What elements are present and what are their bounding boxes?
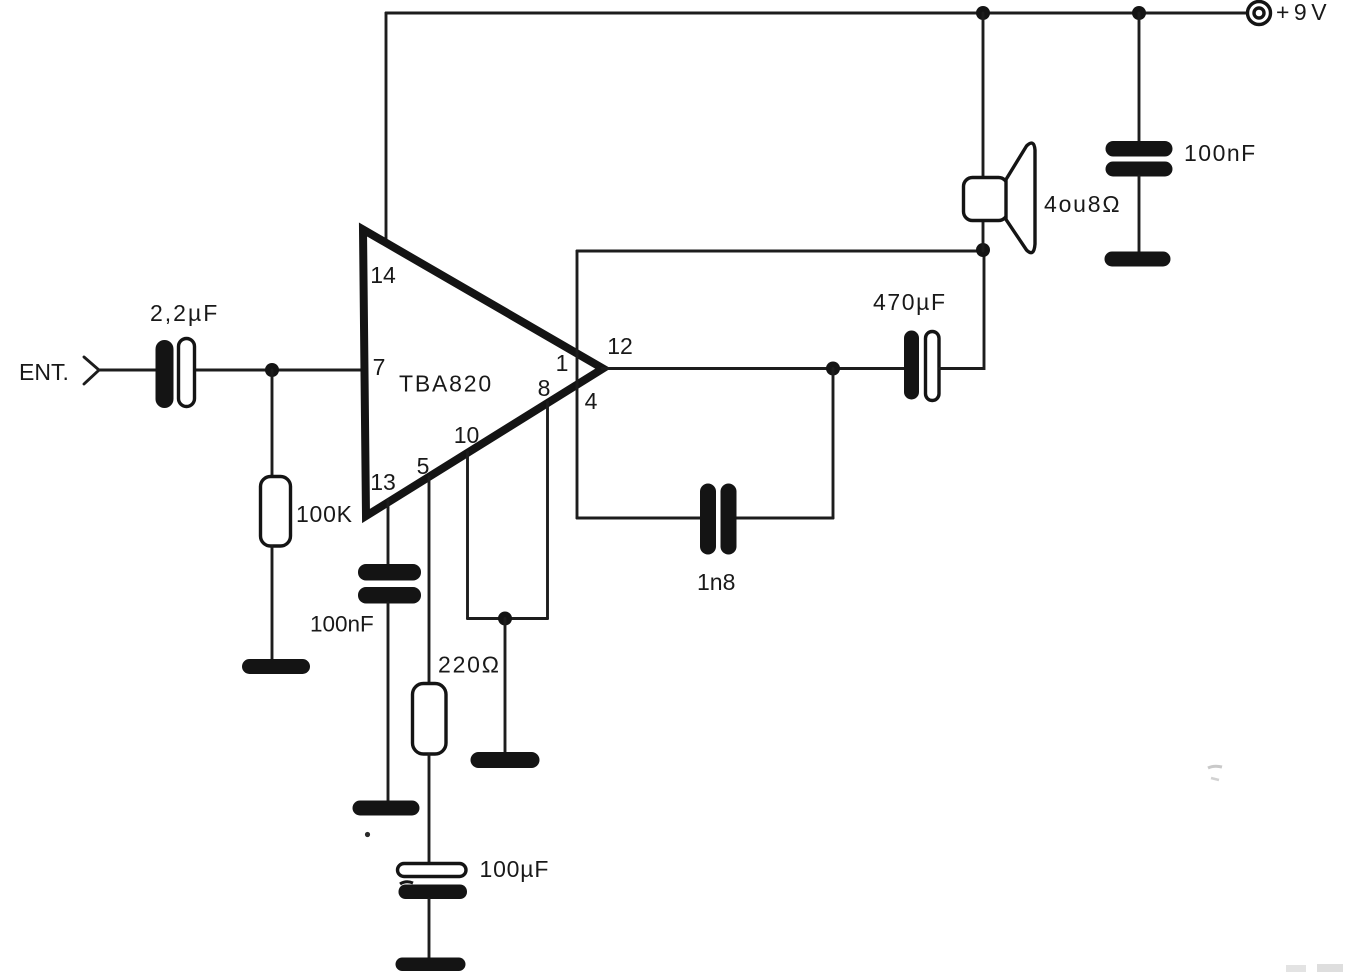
capacitor C3 100uF negative plate [399,885,468,900]
svg-text:1: 1 [556,350,569,376]
resistor R2 220 ohm [413,684,447,755]
node: speaker bottom junction [976,243,990,257]
svg-text:5: 5 [417,453,430,479]
capacitor C3 100uF positive plate [398,864,467,877]
wire: supply down to capacitor C6 [1138,13,1141,142]
capacitor C2 100nF plate 1 [358,564,421,581]
svg-text:13: 13 [370,469,396,495]
wire: amplifier output to capacitor C4 [602,367,904,370]
svg-text:12: 12 [607,333,633,359]
node: junction supply/100nF [1132,6,1146,20]
wire: R2 to capacitor C3 [428,754,431,864]
svg-text:10: 10 [454,422,480,448]
wire: junction to ground [504,619,507,754]
wire: feedback top rail pin 12 to speaker node [577,250,983,253]
svg-text:2,2µF: 2,2µF [150,300,219,326]
wire: C2 to ground [387,603,390,803]
svg-text:+9V: +9V [1276,0,1331,25]
capacitor C1 2,2uF positive plate [156,340,174,408]
wire: junction down to resistor R1 [271,370,274,477]
wire: C6 to ground [1138,176,1141,253]
node: junction supply/speaker [976,6,990,20]
capacitor C6 100nF plate 2 [1106,162,1173,177]
capacitor C5 1n8 plate 1 [700,484,716,555]
capacitor C4 470uF positive plate [904,331,919,400]
node: input junction [265,363,279,377]
speaker LS1 body [964,178,1008,221]
wire: pin 5 down to resistor R2 [428,477,431,683]
op-amp U1 TBA820 [363,230,603,517]
ground: under pins 10-8 [471,752,540,768]
svg-text:100nF: 100nF [310,612,374,637]
wire: C4 to corner up to speaker node [940,251,985,369]
wire: R1 to ground [271,546,274,664]
svg-text:7: 7 [373,354,386,380]
wire: pin 13 down to capacitor C2 [387,500,390,566]
svg-text:TBA820: TBA820 [399,371,493,397]
ground: under C2 [353,801,420,816]
wire: 1n8 bottom left segment [577,517,700,520]
faint scan mark bottom right corner [1286,965,1306,972]
node: pins 10-8 junction [498,612,512,626]
terminal: +9V connector [1248,2,1271,25]
wire: pins 10-8 tie [468,617,548,620]
wire: supply rail down to amplifier top vertex [385,13,388,245]
speaker LS1 cone [1006,143,1035,253]
svg-text:100K: 100K [296,501,353,527]
svg-text:100nF: 100nF [1184,140,1257,166]
wire: pin 10 down [466,452,469,619]
node: output junction [826,362,840,376]
svg-text:4: 4 [585,388,598,414]
svg-text:1n8: 1n8 [697,569,735,595]
ground: under C3 [396,958,466,972]
svg-text:ENT.: ENT. [19,359,69,385]
wire: output junction down to C5 1n8 [832,369,835,519]
wire: +9V supply rail top [386,12,1247,15]
capacitor C3 100uF negative plate tail [400,882,413,884]
wire: C3 to ground [428,899,431,958]
wire: 1n8 bottom right segment [736,517,833,520]
svg-text:14: 14 [370,262,396,288]
resistor R1 100K [261,477,291,547]
terminal: ENT. input arrow [84,357,99,384]
faint scan smudge [1208,766,1222,768]
svg-text:220Ω: 220Ω [438,652,501,678]
ground: under R1 [242,659,310,674]
svg-text:470µF: 470µF [873,289,947,315]
wire: pin 8 down [546,402,549,619]
svg-text:4ou8Ω: 4ou8Ω [1044,191,1121,217]
ink speck [365,832,370,837]
capacitor C4 470uF negative plate [926,332,940,401]
wire: pin 12 / pin 4 vertical [576,251,579,518]
wire: C1 to pin 7 of amplifier [194,369,364,372]
svg-text:8: 8 [538,375,551,401]
svg-text:100µF: 100µF [480,856,550,882]
wire: speaker bottom to junction [982,220,985,251]
wire: input to capacitor C1 [99,369,156,372]
ground: under C6 [1105,252,1171,267]
capacitor C2 100nF plate 2 [358,587,421,604]
capacitor C5 1n8 plate 2 [721,484,737,555]
capacitor C1 2,2uF negative plate [179,339,195,407]
capacitor C6 100nF plate 1 [1106,141,1173,157]
wire: supply down to speaker [982,13,985,178]
